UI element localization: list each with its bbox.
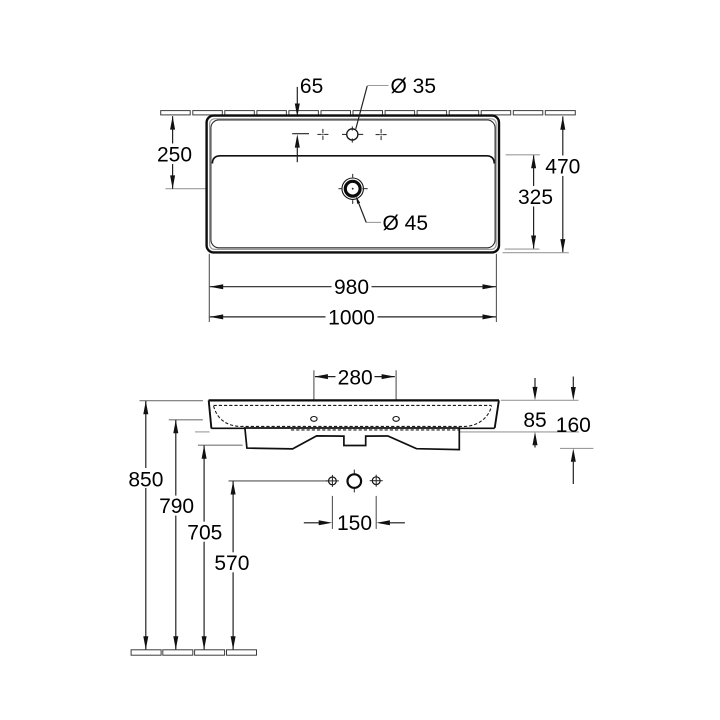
label Ø 35 with leader: [356, 75, 436, 129]
svg-text:250: 250: [157, 144, 192, 167]
dimension 150: [304, 512, 405, 535]
gray datum line under body (front view): [195, 431, 210, 433]
left edge: [209, 400, 212, 428]
dimension 470: [545, 116, 580, 252]
left faucet position cross: [317, 129, 328, 140]
dimension 250: [157, 116, 192, 189]
center mounting hole: [348, 474, 362, 488]
dimension 705: [187, 445, 223, 649]
extension line left (980/1000): [208, 254, 210, 322]
faucet hole Ø35 (top view): [347, 129, 358, 140]
svg-text:570: 570: [214, 552, 249, 575]
bowl back edge line (top view): [212, 156, 494, 164]
extension line 280 right: [395, 370, 397, 415]
dimension 1000: [210, 306, 496, 329]
extension line 150 left: [331, 496, 333, 529]
svg-text:1000: 1000: [328, 306, 375, 329]
basin outer outline (top view): [207, 116, 499, 253]
svg-text:150: 150: [337, 512, 372, 535]
wall tile line (top view): [161, 111, 576, 115]
dimension 790: [159, 420, 195, 650]
body fill: [209, 400, 499, 428]
svg-text:160: 160: [556, 414, 591, 437]
hidden bowl dashed line: [214, 406, 492, 426]
extension line 850 top: [140, 400, 203, 402]
dimension 280: [314, 367, 395, 390]
right edge: [495, 400, 499, 428]
floor line segments: [131, 650, 256, 655]
extension line 150 right: [375, 496, 377, 529]
faucet hole centerline ticks: [342, 126, 363, 142]
extension line 160 bottom right: [560, 447, 593, 449]
svg-text:280: 280: [338, 367, 373, 390]
right faucet position cross: [376, 129, 387, 140]
drain hole Ø45 (top view): [342, 178, 363, 199]
svg-text:65: 65: [300, 75, 323, 98]
extension line 570 top (to holes): [229, 480, 328, 482]
top edge: [209, 399, 499, 401]
basin rim inner black line (top view): [211, 120, 495, 248]
mounting holes row (front view): [326, 470, 383, 493]
left mounting hole: [329, 477, 337, 485]
hidden back bottom edge dashed (front view): [291, 429, 459, 431]
svg-text:850: 850: [128, 468, 163, 491]
extension line 280 left: [313, 370, 315, 415]
svg-text:Ø 35: Ø 35: [391, 75, 437, 98]
dimension 325: [518, 155, 553, 249]
svg-text:705: 705: [187, 521, 222, 544]
extension line 705 top: [198, 444, 243, 446]
drain centerline ticks: [339, 174, 368, 204]
svg-text:85: 85: [523, 409, 546, 432]
extension line right (980/1000): [495, 254, 497, 322]
svg-text:325: 325: [518, 186, 553, 209]
basin centerline through drain (top view): [214, 188, 492, 190]
svg-text:790: 790: [159, 495, 194, 518]
extension line 325 bottom: [505, 248, 540, 250]
extension line 470 bottom: [503, 252, 569, 254]
dimension 65: [292, 75, 323, 162]
hidden rim dashed line: [214, 404, 492, 406]
left fixing hole (front view): [311, 417, 317, 422]
svg-text:Ø 45: Ø 45: [383, 212, 429, 235]
bottom edge: [211, 427, 494, 429]
extension line 325 top: [506, 154, 540, 156]
dimension 160: [556, 377, 591, 485]
right mounting hole: [372, 477, 380, 485]
trap shroud (front view): [245, 428, 459, 450]
extension line for 250 at drain height: [166, 188, 211, 190]
label Ø 45 with leader arrow: [356, 196, 428, 235]
right fixing hole (front view): [393, 417, 399, 422]
svg-text:470: 470: [545, 155, 580, 178]
svg-text:980: 980: [334, 276, 369, 299]
extension line 85/160 top right: [501, 399, 579, 401]
dimension 85: [523, 378, 546, 448]
dimension 570: [214, 481, 250, 649]
extension line 790 top: [169, 419, 203, 421]
basin body (front view): [209, 400, 499, 428]
basin rim inner gray line (top view): [210, 119, 497, 250]
dimension 850: [128, 401, 165, 650]
dimension 980: [210, 276, 496, 299]
